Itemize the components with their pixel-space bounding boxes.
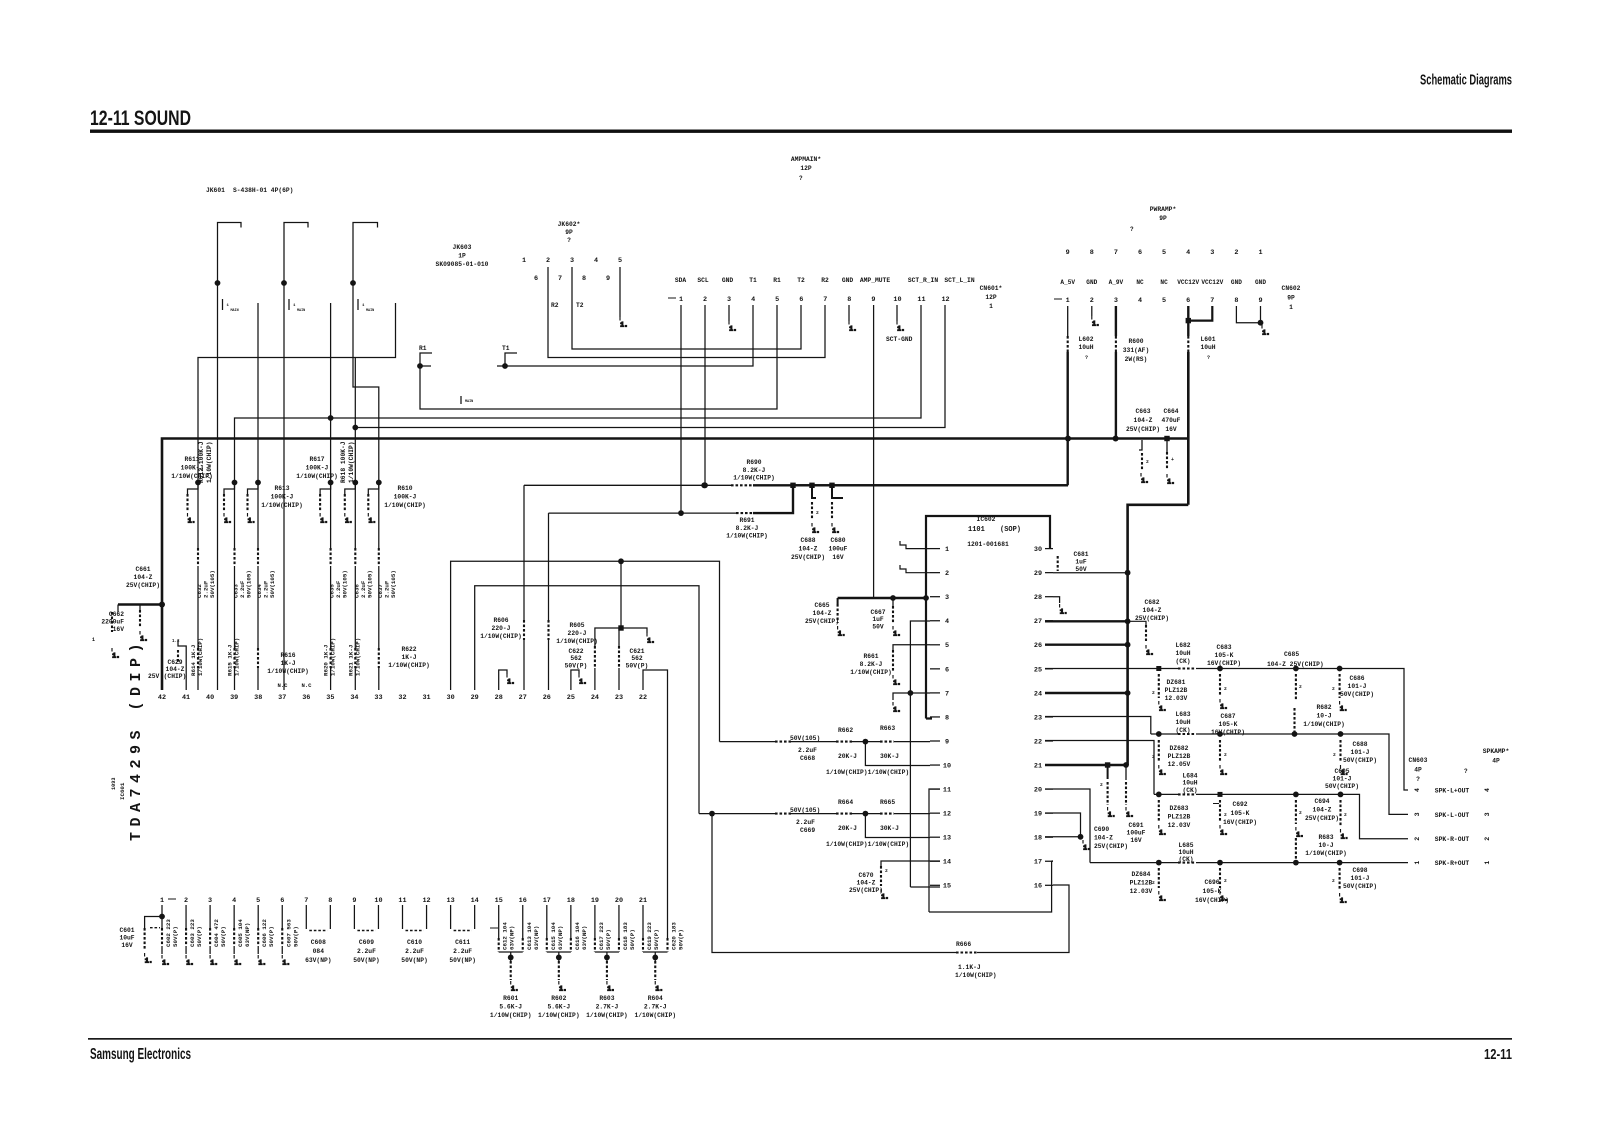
svg-text:9: 9 [352, 897, 356, 905]
wire IC602 pin1 tick [930, 548, 940, 550]
svg-text:C694: C694 [1314, 798, 1329, 805]
wire IC602 pin29 tick [1045, 572, 1053, 574]
ground C661 [140, 631, 148, 643]
node A5V SCL junction [701, 482, 707, 488]
node row1 C686 [1337, 666, 1343, 672]
ground C683 [1220, 699, 1228, 711]
wire IC602 pin4 tick [930, 620, 940, 622]
ground C622 net [647, 633, 655, 645]
svg-text:50V(105): 50V(105) [246, 570, 253, 598]
capacitor C618 body [618, 938, 620, 952]
wire VCC12V jog [1128, 505, 1189, 765]
svg-text:6: 6 [280, 897, 284, 905]
svg-text:16V(CHIP): 16V(CHIP) [1223, 819, 1257, 826]
svg-text:24: 24 [591, 694, 599, 702]
svg-text:Samsung Electronics: Samsung Electronics [90, 1046, 191, 1063]
node pin7 junction [908, 690, 914, 696]
svg-text:104-Z: 104-Z [1143, 607, 1162, 614]
wire pin3 thick [838, 597, 926, 599]
svg-text:2: 2 [1224, 752, 1227, 758]
wire IC602 pin6 tick [930, 668, 940, 670]
svg-text:24: 24 [1034, 690, 1042, 698]
svg-text:32: 32 [398, 694, 406, 702]
svg-text:16: 16 [519, 897, 527, 905]
node pin29 rail junction [1125, 570, 1131, 576]
wire pin9 line b [791, 741, 836, 743]
svg-text:100K-J: 100K-J [306, 465, 329, 472]
svg-text:101-J: 101-J [1351, 749, 1370, 756]
svg-text:12.03V: 12.03V [1168, 822, 1191, 829]
svg-text:R622: R622 [401, 646, 416, 653]
node R666 pin12 junction [709, 811, 715, 817]
svg-text:L682: L682 [1175, 642, 1190, 649]
svg-text:2.2uF: 2.2uF [357, 948, 376, 955]
wire IC602 pin5 tick [930, 644, 940, 646]
capacitor C682 hook [1128, 621, 1146, 625]
svg-text:1: 1 [522, 257, 526, 265]
capacitor C611 body [454, 930, 472, 932]
wire column 234 mid [234, 566, 236, 648]
resistor R690 body [731, 484, 753, 486]
wire column 355 low [354, 668, 356, 690]
svg-text:2: 2 [1152, 880, 1155, 886]
svg-text:2: 2 [1299, 684, 1302, 690]
svg-text:101-J: 101-J [1333, 776, 1352, 783]
svg-text:25V(CHIP): 25V(CHIP) [1126, 426, 1160, 433]
zener DZ682 body [1158, 740, 1160, 762]
node VCC12V square [1186, 318, 1191, 323]
ground CN601 pin3 [729, 321, 737, 333]
wire JK601 contact tick 2 [288, 299, 290, 310]
ground C698 [1340, 893, 1348, 905]
svg-text:26: 26 [543, 694, 551, 702]
svg-text:JK602*: JK602* [558, 221, 581, 228]
svg-text:2: 2 [1224, 878, 1227, 884]
svg-text:25V(CHIP): 25V(CHIP) [791, 554, 825, 561]
svg-text:C687: C687 [1220, 713, 1235, 720]
svg-text:T1: T1 [502, 345, 510, 352]
node pin23 col junction [618, 558, 624, 564]
svg-text:18: 18 [1034, 835, 1042, 843]
svg-text:50V(105): 50V(105) [269, 570, 276, 598]
resistor R615 body [233, 648, 235, 668]
svg-text:GND: GND [842, 277, 854, 284]
svg-text:14: 14 [943, 859, 951, 867]
svg-text:C617 223: C617 223 [598, 922, 605, 950]
node pin26 rail junction [1125, 642, 1131, 648]
svg-text:3: 3 [1484, 812, 1491, 816]
resistor R603 body [606, 961, 608, 980]
wire R606 column [523, 485, 525, 620]
svg-text:2W(RS): 2W(RS) [1125, 356, 1148, 363]
svg-text:C663: C663 [1135, 408, 1150, 415]
wire column 198 mid [197, 566, 199, 648]
wire pin22 hook [643, 670, 668, 905]
svg-text:AMP_MUTE: AMP_MUTE [860, 277, 890, 284]
svg-text:5: 5 [256, 897, 260, 905]
ground pin7 [893, 702, 901, 714]
svg-text:084: 084 [313, 948, 325, 955]
wire IC602 pin10 tick [930, 764, 940, 766]
svg-text:C613 104: C613 104 [526, 922, 533, 950]
svg-text:5: 5 [775, 296, 779, 304]
svg-text:R665: R665 [880, 799, 895, 806]
capacitor C667 stub [892, 598, 894, 606]
svg-text:10-J: 10-J [1316, 713, 1331, 720]
svg-text:27: 27 [519, 694, 527, 702]
svg-text:MAIN: MAIN [465, 400, 473, 404]
capacitor C629 body [177, 650, 179, 664]
svg-text:1101: 1101 [968, 526, 985, 534]
svg-text:1/10W(CHIP): 1/10W(CHIP) [955, 972, 997, 979]
svg-text:C683: C683 [1216, 644, 1231, 651]
svg-text:5: 5 [1162, 249, 1166, 257]
svg-text:12-11 SOUND: 12-11 SOUND [90, 106, 191, 130]
svg-text:7: 7 [1114, 249, 1118, 257]
node row4 C698 [1337, 860, 1343, 866]
resistor R604 body [654, 961, 656, 980]
wire pin12 line d [894, 813, 930, 815]
node pin21 rail junction [1123, 762, 1129, 768]
svg-text:105-K: 105-K [1231, 810, 1250, 817]
wire R604 stub [654, 952, 656, 961]
svg-text:10uH: 10uH [1182, 780, 1197, 787]
svg-text:20K-J: 20K-J [838, 825, 857, 832]
node pin24 rail junction [1125, 690, 1131, 696]
svg-text:R683: R683 [1318, 834, 1333, 841]
node bus A_5V junction [1065, 436, 1071, 442]
svg-text:10uH: 10uH [1078, 344, 1093, 351]
svg-text:12.03V: 12.03V [1165, 695, 1188, 702]
zener DZ683 body [1158, 800, 1160, 822]
svg-text:12.05V: 12.05V [1168, 761, 1191, 768]
ground C664 [1167, 474, 1175, 486]
svg-text:C680: C680 [830, 537, 845, 544]
svg-text:C688: C688 [1352, 741, 1367, 748]
wire CN602 pin9 stub [1260, 306, 1262, 323]
footer rule [88, 1038, 1512, 1040]
capacitor C616 leg [570, 905, 572, 938]
capacitor C682 body [1145, 625, 1147, 641]
svg-text:1/10W(CHIP): 1/10W(CHIP) [726, 533, 768, 540]
wire JK601 hook2 sleeve drop [330, 303, 332, 548]
capacitor C691a stub [1107, 765, 1109, 779]
resistor R662 body [836, 741, 852, 743]
svg-text:1: 1 [679, 296, 683, 304]
svg-text:100K-J: 100K-J [271, 494, 294, 501]
capacitor C622 top hook [595, 628, 647, 646]
svg-text:15: 15 [495, 897, 503, 905]
svg-text:PLZ12B: PLZ12B [1168, 753, 1191, 760]
svg-text:2: 2 [546, 257, 550, 265]
svg-text:37: 37 [278, 694, 286, 702]
svg-text:SPK-L+OUT: SPK-L+OUT [1435, 787, 1470, 794]
svg-text:1/10W(CHIP): 1/10W(CHIP) [733, 475, 775, 482]
svg-text:SCL: SCL [697, 277, 709, 284]
svg-text:8: 8 [328, 897, 332, 905]
svg-text:A_9V: A_9V [1109, 279, 1124, 286]
op-amp IC602 outline [926, 516, 1050, 719]
svg-text:3: 3 [1114, 297, 1118, 305]
svg-text:CN602: CN602 [1282, 285, 1301, 292]
capacitor C608 body [309, 930, 327, 932]
capacitor C681 body [1057, 556, 1059, 571]
wire SCL net thick [753, 484, 1068, 486]
wire IC602 pin19 tick [1045, 812, 1053, 814]
svg-text:L601: L601 [1200, 336, 1215, 343]
capacitor C602 body [161, 928, 163, 946]
svg-text:9: 9 [606, 275, 610, 283]
capacitor C617 leg [594, 905, 596, 938]
svg-text:C664: C664 [1163, 408, 1178, 415]
svg-text:105-K: 105-K [1215, 652, 1234, 659]
wire R606 to pin27 [523, 640, 525, 690]
node row3 C692 [1218, 792, 1223, 797]
svg-text:25V(CHIP): 25V(CHIP) [126, 582, 160, 589]
capacitor C661 body [139, 610, 141, 628]
svg-text:8.2K-J: 8.2K-J [743, 467, 766, 474]
svg-text:27: 27 [1034, 618, 1042, 626]
wire row1 right [1196, 669, 1408, 791]
capacitor C608 left leg [305, 905, 307, 929]
ground CN601 pin10 [897, 321, 905, 333]
svg-text:C621: C621 [629, 648, 644, 655]
capacitor C637 body [378, 548, 380, 566]
svg-text:11: 11 [943, 787, 951, 795]
svg-text:23: 23 [1034, 714, 1042, 722]
node R601 junction [508, 955, 514, 961]
node row2 R682 [1292, 731, 1298, 737]
ground C692 [1220, 825, 1228, 837]
ground C603 [186, 955, 194, 967]
capacitor C621 top [618, 628, 620, 646]
wire row2 right [1196, 734, 1408, 814]
svg-text:25: 25 [567, 694, 575, 702]
wire pin7 ground [893, 693, 930, 700]
svg-text:TDA7429S (DIP): TDA7429S (DIP) [128, 638, 145, 841]
svg-text:50V(P): 50V(P) [605, 929, 612, 950]
wire IC602 pin13 tick [930, 836, 940, 838]
wire IC602 pin8 tick [930, 716, 940, 718]
svg-text:2: 2 [184, 897, 188, 905]
capacitor C620 body [666, 938, 668, 952]
svg-text:50V(CHIP): 50V(CHIP) [1325, 783, 1359, 790]
svg-text:GND: GND [1086, 279, 1097, 286]
svg-text:28: 28 [495, 694, 503, 702]
svg-text:2.2uF: 2.2uF [798, 747, 817, 754]
capacitor C688 body [1339, 740, 1341, 762]
svg-text:R617: R617 [309, 456, 324, 463]
wire pin12 line b [791, 813, 836, 815]
wire JK601 hook2 pin drop [283, 283, 285, 690]
capacitor C616 body [570, 938, 572, 952]
svg-text:1.2: 1.2 [172, 640, 180, 644]
svg-text:R610: R610 [397, 485, 412, 492]
inductor L682 body [1178, 667, 1196, 669]
svg-text:2: 2 [1152, 754, 1155, 760]
wire pin19 drop [1045, 813, 1081, 837]
node C667 junction [890, 595, 896, 601]
svg-text:1K-J: 1K-J [401, 654, 416, 661]
svg-text:50V(P): 50V(P) [292, 926, 299, 947]
svg-text:?: ? [1130, 226, 1134, 233]
svg-text:NC: NC [1160, 279, 1168, 286]
svg-text:CN603: CN603 [1409, 757, 1428, 764]
svg-text:104-Z: 104-Z [857, 880, 876, 887]
svg-text:12: 12 [943, 811, 951, 819]
capacitor C601 dash [150, 927, 160, 929]
capacitor C609 body [357, 930, 375, 932]
ground C687 [1220, 765, 1228, 777]
wire pin9 line d [894, 741, 930, 743]
resistor R610 body [367, 494, 369, 511]
node pin27 rail junction [1125, 618, 1131, 624]
svg-text:T2: T2 [797, 277, 805, 284]
svg-text:4: 4 [594, 257, 598, 265]
wire CN601 pin1 mark [668, 297, 676, 299]
node JK601 hook 2 junction [281, 280, 287, 286]
svg-text:1/10W(CHIP): 1/10W(CHIP) [634, 1012, 676, 1019]
svg-text:50V(CHIP): 50V(CHIP) [1343, 757, 1377, 764]
wire pin11 drop [929, 789, 940, 912]
capacitor C698 body [1339, 868, 1341, 890]
svg-text:13: 13 [447, 897, 455, 905]
svg-text:C668: C668 [800, 755, 815, 762]
wire SCL net [524, 484, 731, 486]
node R602 junction [556, 955, 562, 961]
svg-text:?: ? [567, 237, 571, 244]
svg-text:2.2uF: 2.2uF [796, 819, 815, 826]
svg-text:Schematic Diagrams: Schematic Diagrams [1420, 72, 1512, 89]
resistor R602 body [558, 961, 560, 980]
wire column 258 low [257, 668, 259, 690]
wire VCC12V rail down [1187, 352, 1190, 505]
svg-text:18: 18 [567, 897, 575, 905]
wire A_9V from pin3 [1115, 306, 1117, 336]
capacitor C603 body [185, 928, 187, 946]
svg-text:50V(P): 50V(P) [629, 929, 636, 950]
svg-text:1/10W(CHIP): 1/10W(CHIP) [850, 669, 892, 676]
node R611 junction [195, 480, 201, 486]
svg-text:7: 7 [823, 296, 827, 304]
svg-text:1.1K-J: 1.1K-J [958, 964, 981, 971]
wire IC602 pin23 tick [1045, 716, 1053, 718]
svg-text:15: 15 [943, 883, 951, 891]
svg-text:1/10W(CHIP): 1/10W(CHIP) [234, 638, 241, 676]
label C692 arrow [1213, 803, 1219, 805]
svg-text:PWRAMP*: PWRAMP* [1150, 206, 1177, 213]
svg-text:220-J: 220-J [568, 630, 587, 637]
capacitor C669 body [775, 813, 791, 815]
wire row4 [1090, 862, 1178, 864]
svg-text:7: 7 [304, 897, 308, 905]
capacitor C662 body [111, 612, 113, 632]
wire A_5V corner to left [793, 484, 1068, 486]
capacitor C670 body [880, 866, 882, 886]
svg-text:1/10W(CHIP): 1/10W(CHIP) [354, 638, 361, 676]
wire SDA net [549, 512, 737, 514]
svg-text:26: 26 [1034, 642, 1042, 650]
svg-text:100uF: 100uF [1127, 830, 1146, 837]
svg-text:2: 2 [1224, 812, 1227, 818]
ground C680 [832, 523, 840, 535]
svg-text:63V(NP): 63V(NP) [305, 957, 331, 964]
svg-text:R1: R1 [419, 345, 427, 352]
capacitor C695 body [1339, 800, 1341, 826]
ground DZ682 [1159, 765, 1167, 777]
node C688 square [809, 483, 814, 488]
svg-text:JK603: JK603 [453, 244, 472, 251]
svg-text:1: 1 [227, 304, 230, 308]
svg-text:2: 2 [1299, 810, 1302, 816]
svg-text:IC601: IC601 [119, 782, 126, 800]
svg-text:63V(NP): 63V(NP) [244, 923, 251, 947]
svg-text:50V(105): 50V(105) [366, 570, 373, 598]
inductor L601 body [1187, 336, 1189, 352]
ground C688 [1341, 765, 1349, 777]
svg-text:2: 2 [1090, 297, 1094, 305]
node R604 junction [652, 955, 658, 961]
svg-text:331(AF): 331(AF) [1123, 347, 1149, 354]
svg-text:11: 11 [917, 296, 925, 304]
node row4 R683 [1293, 860, 1299, 866]
svg-text:C604 472: C604 472 [213, 919, 220, 947]
svg-text:CN601*: CN601* [980, 285, 1003, 292]
svg-text:T2: T2 [576, 302, 584, 309]
svg-text:R620 1K-J: R620 1K-J [323, 645, 330, 676]
wire row4 right [1196, 862, 1408, 864]
svg-text:1: 1 [92, 637, 95, 643]
svg-text:?: ? [1464, 768, 1468, 775]
svg-text:101-J: 101-J [1348, 683, 1367, 690]
svg-text:AMPMAIN*: AMPMAIN* [791, 156, 821, 163]
svg-text:31: 31 [422, 694, 430, 702]
node C601 junction [159, 914, 165, 920]
svg-text:4: 4 [1186, 249, 1190, 257]
capacitor C685 body [1295, 674, 1297, 700]
capacitor C620 leg [667, 905, 669, 938]
svg-text:17: 17 [543, 897, 551, 905]
svg-text:(CK): (CK) [1175, 658, 1190, 665]
wire R1 to CN601 pin5 [420, 305, 777, 409]
svg-text:21: 21 [1034, 762, 1042, 770]
svg-text:9: 9 [1066, 249, 1070, 257]
resistor R614 body [197, 648, 199, 668]
svg-text:T1: T1 [749, 277, 757, 284]
svg-text:2: 2 [1414, 837, 1421, 841]
wire IC602 pin12 tick [930, 812, 940, 814]
svg-text:63V(NP): 63V(NP) [509, 926, 516, 950]
capacitor C603 lower [185, 946, 187, 954]
svg-text:4: 4 [1138, 297, 1142, 305]
svg-text:105-K: 105-K [1203, 888, 1222, 895]
capacitor C661 stub [139, 605, 141, 611]
wire JK601 hook3 pin drop [353, 283, 379, 548]
wire column 330 low [330, 668, 332, 690]
resistor R683 body [1295, 838, 1297, 860]
capacitor C601 hook [145, 917, 162, 929]
svg-text:SCT_L_IN: SCT_L_IN [944, 277, 974, 284]
wire pin23 column up [620, 561, 622, 628]
wire SDA net thick [753, 485, 793, 513]
svg-text:104-Z: 104-Z [134, 574, 153, 581]
ground CN602 pin9 [1262, 325, 1270, 337]
svg-text:2: 2 [1332, 878, 1335, 884]
svg-text:2: 2 [945, 570, 949, 578]
svg-text:104-Z: 104-Z [813, 610, 832, 617]
wire pin15 mark [490, 927, 498, 929]
capacitor C683 body [1219, 674, 1221, 696]
